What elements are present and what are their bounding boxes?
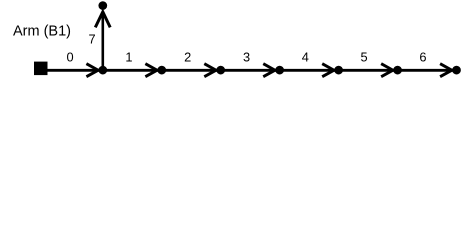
- svg-text:1: 1: [125, 50, 132, 65]
- svg-text:7: 7: [88, 32, 95, 47]
- svg-text:Arm (B1): Arm (B1): [13, 23, 71, 39]
- svg-text:3: 3: [243, 50, 250, 65]
- svg-text:0: 0: [67, 50, 74, 65]
- svg-text:5: 5: [361, 50, 368, 65]
- svg-text:6: 6: [419, 50, 426, 65]
- svg-text:4: 4: [302, 50, 309, 65]
- svg-text:2: 2: [184, 50, 191, 65]
